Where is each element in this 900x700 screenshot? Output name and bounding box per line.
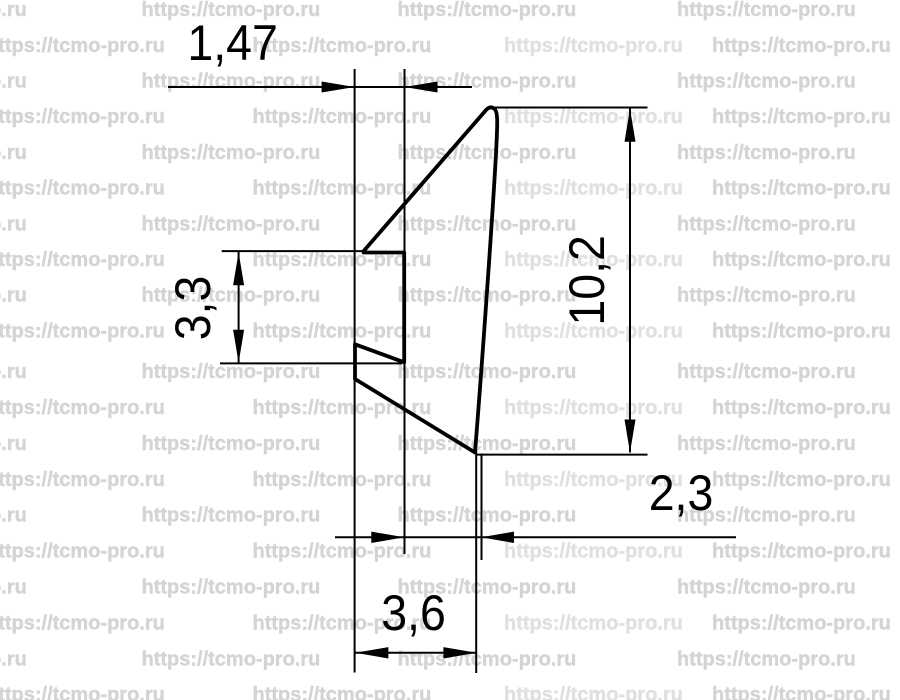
svg-text:https://tcmo-pro.ru: https://tcmo-pro.ru [142, 142, 321, 164]
svg-text:https://tcmo-pro.ru: https://tcmo-pro.ru [0, 612, 165, 634]
svg-text:https://tcmo-pro.ru: https://tcmo-pro.ru [677, 142, 856, 164]
svg-text:https://tcmo-pro.ru: https://tcmo-pro.ru [0, 249, 165, 271]
svg-text:https://tcmo-pro.ru: https://tcmo-pro.ru [398, 648, 577, 670]
svg-text:https://tcmo-pro.ru: https://tcmo-pro.ru [0, 0, 27, 21]
svg-text:https://tcmo-pro.ru: https://tcmo-pro.ru [0, 433, 27, 455]
svg-text:1,47: 1,47 [187, 15, 277, 71]
svg-text:https://tcmo-pro.ru: https://tcmo-pro.ru [677, 0, 856, 21]
svg-text:https://tcmo-pro.ru: https://tcmo-pro.ru [142, 433, 321, 455]
svg-text:https://tcmo-pro.ru: https://tcmo-pro.ru [398, 0, 577, 21]
svg-text:https://tcmo-pro.ru: https://tcmo-pro.ru [398, 433, 577, 455]
svg-text:https://tcmo-pro.ru: https://tcmo-pro.ru [0, 71, 27, 93]
svg-text:https://tcmo-pro.ru: https://tcmo-pro.ru [0, 213, 27, 235]
svg-text:https://tcmo-pro.ru: https://tcmo-pro.ru [712, 35, 891, 57]
svg-text:https://tcmo-pro.ru: https://tcmo-pro.ru [677, 433, 856, 455]
ext 10,2 top [495, 107, 648, 109]
svg-text:https://tcmo-pro.ru: https://tcmo-pro.ru [677, 285, 856, 307]
arrow 10,2 top [625, 109, 636, 142]
svg-text:https://tcmo-pro.ru: https://tcmo-pro.ru [398, 505, 577, 527]
svg-text:https://tcmo-pro.ru: https://tcmo-pro.ru [0, 505, 27, 527]
svg-text:https://tcmo-pro.ru: https://tcmo-pro.ru [0, 285, 27, 307]
arrow 3,6 left [355, 647, 388, 658]
svg-text:https://tcmo-pro.ru: https://tcmo-pro.ru [504, 178, 683, 200]
svg-text:https://tcmo-pro.ru: https://tcmo-pro.ru [142, 505, 321, 527]
svg-text:https://tcmo-pro.ru: https://tcmo-pro.ru [0, 178, 165, 200]
svg-text:https://tcmo-pro.ru: https://tcmo-pro.ru [0, 541, 165, 563]
arrow 3,3 top [233, 252, 244, 285]
svg-text:https://tcmo-pro.ru: https://tcmo-pro.ru [0, 142, 27, 164]
svg-text:https://tcmo-pro.ru: https://tcmo-pro.ru [712, 249, 891, 271]
svg-text:3,3: 3,3 [165, 276, 221, 341]
arrow 3,6 right [443, 647, 476, 658]
dim line 3,6 [355, 652, 476, 654]
ext line bottom tip x=477.5 [475, 450, 477, 673]
svg-text:https://tcmo-pro.ru: https://tcmo-pro.ru [712, 397, 891, 419]
svg-text:https://tcmo-pro.ru: https://tcmo-pro.ru [712, 178, 891, 200]
svg-text:https://tcmo-pro.ru: https://tcmo-pro.ru [504, 35, 683, 57]
svg-text:https://tcmo-pro.ru: https://tcmo-pro.ru [398, 213, 577, 235]
arrow 3,3 bottom [233, 330, 244, 363]
svg-text:https://tcmo-pro.ru: https://tcmo-pro.ru [398, 361, 577, 383]
svg-text:2,3: 2,3 [649, 465, 714, 521]
arrow 2,3 right [481, 532, 514, 543]
svg-text:https://tcmo-pro.ru: https://tcmo-pro.ru [0, 684, 165, 700]
svg-text:https://tcmo-pro.ru: https://tcmo-pro.ru [504, 397, 683, 419]
svg-text:https://tcmo-pro.ru: https://tcmo-pro.ru [712, 612, 891, 634]
svg-text:https://tcmo-pro.ru: https://tcmo-pro.ru [0, 35, 165, 57]
ext 10,2 bottom [477, 454, 648, 456]
arrow 1,47 left [322, 82, 355, 93]
svg-text:https://tcmo-pro.ru: https://tcmo-pro.ru [504, 541, 683, 563]
svg-text:https://tcmo-pro.ru: https://tcmo-pro.ru [0, 469, 165, 491]
svg-text:https://tcmo-pro.ru: https://tcmo-pro.ru [0, 320, 165, 342]
svg-text:https://tcmo-pro.ru: https://tcmo-pro.ru [504, 684, 683, 700]
extension line V1 x=354.6 [354, 69, 356, 673]
svg-text:https://tcmo-pro.ru: https://tcmo-pro.ru [677, 361, 856, 383]
svg-text:https://tcmo-pro.ru: https://tcmo-pro.ru [142, 71, 321, 93]
arrow 1,47 right [405, 82, 438, 93]
svg-text:https://tcmo-pro.ru: https://tcmo-pro.ru [712, 469, 891, 491]
dimension texts [165, 15, 713, 641]
arrow 10,2 bottom [625, 420, 636, 453]
svg-text:https://tcmo-pro.ru: https://tcmo-pro.ru [504, 106, 683, 128]
drawing layer [168, 69, 736, 673]
svg-text:https://tcmo-pro.ru: https://tcmo-pro.ru [0, 106, 165, 128]
svg-text:https://tcmo-pro.ru: https://tcmo-pro.ru [253, 35, 432, 57]
extension line V2 x=404.5 [404, 69, 406, 554]
svg-text:https://tcmo-pro.ru: https://tcmo-pro.ru [677, 577, 856, 599]
dim line 10,2 [629, 109, 631, 453]
svg-text:https://tcmo-pro.ru: https://tcmo-pro.ru [0, 648, 27, 670]
svg-text:https://tcmo-pro.ru: https://tcmo-pro.ru [142, 648, 321, 670]
svg-text:https://tcmo-pro.ru: https://tcmo-pro.ru [712, 320, 891, 342]
dim line 2,3 [335, 536, 736, 538]
svg-text:https://tcmo-pro.ru: https://tcmo-pro.ru [142, 213, 321, 235]
svg-text:https://tcmo-pro.ru: https://tcmo-pro.ru [677, 213, 856, 235]
svg-text:https://tcmo-pro.ru: https://tcmo-pro.ru [0, 577, 27, 599]
ext 3,3 bottom [220, 362, 402, 364]
svg-text:https://tcmo-pro.ru: https://tcmo-pro.ru [0, 397, 165, 419]
svg-text:https://tcmo-pro.ru: https://tcmo-pro.ru [398, 142, 577, 164]
dim line 1,47 [168, 86, 472, 88]
svg-text:https://tcmo-pro.ru: https://tcmo-pro.ru [677, 648, 856, 670]
arrowheads [233, 82, 635, 659]
svg-text:https://tcmo-pro.ru: https://tcmo-pro.ru [712, 106, 891, 128]
ext 3,3 top [222, 250, 364, 252]
profile outline [355, 107, 497, 452]
ext line 2,3 right x=481.2 [481, 454, 483, 561]
svg-text:https://tcmo-pro.ru: https://tcmo-pro.ru [677, 71, 856, 93]
svg-text:https://tcmo-pro.ru: https://tcmo-pro.ru [0, 361, 27, 383]
svg-text:3,6: 3,6 [381, 585, 446, 641]
svg-text:https://tcmo-pro.ru: https://tcmo-pro.ru [712, 684, 891, 700]
svg-text:https://tcmo-pro.ru: https://tcmo-pro.ru [253, 684, 432, 700]
svg-text:10,2: 10,2 [559, 235, 615, 325]
arrow 2,3 left [371, 532, 404, 543]
svg-text:https://tcmo-pro.ru: https://tcmo-pro.ru [142, 577, 321, 599]
svg-text:https://tcmo-pro.ru: https://tcmo-pro.ru [712, 541, 891, 563]
svg-text:https://tcmo-pro.ru: https://tcmo-pro.ru [504, 612, 683, 634]
dim line 3,3 [238, 252, 240, 363]
